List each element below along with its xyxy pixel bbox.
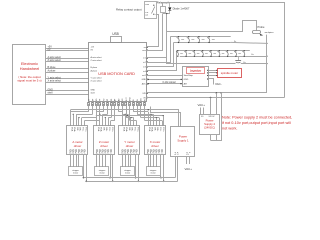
probe label xyxy=(258,25,265,29)
svg-text:motor: motor xyxy=(73,172,78,175)
wire handwheel Y axis select xyxy=(46,76,102,79)
card right pins xyxy=(142,46,149,99)
svg-text:GND: GND xyxy=(130,97,132,102)
wires Y driver power xyxy=(135,155,139,183)
wire relay contact to card xyxy=(147,15,159,47)
svg-text:EN: EN xyxy=(122,98,124,101)
svg-text:5V: 5V xyxy=(137,98,139,101)
PS2 ac stubs xyxy=(201,108,204,115)
wire relay coil to card xyxy=(147,14,163,51)
electronic handwheel box xyxy=(13,45,46,105)
wire handwheel shell xyxy=(46,91,95,94)
svg-text:B pluse: B pluse xyxy=(91,67,99,69)
svg-text:shell: shell xyxy=(91,92,96,94)
svg-text:motor: motor xyxy=(151,172,156,175)
svg-text:0V: 0V xyxy=(91,49,94,51)
limit switch row 2 xyxy=(176,50,245,57)
PS1 ac stubs xyxy=(187,157,190,164)
X stepper motor xyxy=(147,167,161,176)
svg-text:workpiece: workpiece xyxy=(265,32,275,34)
svg-text:Relay contact output: Relay contact output xyxy=(116,8,142,12)
svg-text:DIR+: DIR+ xyxy=(79,127,81,131)
svg-text:A pluse: A pluse xyxy=(48,69,57,72)
row1 top rail xyxy=(170,36,230,38)
svg-text:DIR+: DIR+ xyxy=(131,127,133,131)
V- bus xyxy=(86,157,177,182)
spindle motor box xyxy=(218,69,242,78)
svg-text:ENA+: ENA+ xyxy=(73,127,76,132)
vac- wire xyxy=(207,78,214,84)
svg-text:stepper: stepper xyxy=(99,169,106,172)
svg-text:VAC-: VAC- xyxy=(215,82,222,86)
svg-text:Handwheel: Handwheel xyxy=(20,66,40,71)
svg-text:ZP: ZP xyxy=(107,98,109,101)
svg-text:driver: driver xyxy=(74,144,82,148)
svg-text:in3: in3 xyxy=(143,67,146,69)
wire in4 to row2 top rail xyxy=(147,51,177,71)
wire in1 to probe line xyxy=(147,21,257,58)
svg-text:driver: driver xyxy=(100,144,108,148)
svg-text:VAC+: VAC+ xyxy=(198,103,206,107)
svg-text:GND: GND xyxy=(91,89,96,91)
svg-text:in2: in2 xyxy=(143,62,146,64)
note power supply 2 xyxy=(222,116,292,131)
VAC+ label PS2 xyxy=(198,103,206,107)
wire handwheel Z axis select xyxy=(46,59,102,62)
power supply 1 box xyxy=(171,127,195,157)
svg-text:Es: Es xyxy=(252,54,254,56)
svg-text:Xs: Xs xyxy=(234,41,236,43)
svg-text:24V: 24V xyxy=(141,97,143,101)
wire start/stop xyxy=(147,75,183,77)
svg-text:ENA+: ENA+ xyxy=(125,127,128,132)
svg-text:YD: YD xyxy=(103,98,105,101)
svg-text:driver: driver xyxy=(151,144,159,148)
probe vertical xyxy=(266,35,268,93)
svg-text:L N: L N xyxy=(186,154,189,156)
svg-text:Z axis select: Z axis select xyxy=(48,59,62,62)
power supply 1 label xyxy=(177,135,189,143)
wire handwheel A pluse xyxy=(46,69,98,72)
wire coil-diode bottom xyxy=(163,13,170,15)
handwheel label xyxy=(20,61,40,71)
handwheel note xyxy=(17,75,41,83)
USB connector xyxy=(111,32,122,43)
wire avi inverter xyxy=(147,83,183,84)
wire 24V bus xyxy=(147,92,267,94)
PS2 0V riser xyxy=(210,98,212,115)
svg-text:VAC+: VAC+ xyxy=(185,167,193,171)
svg-text:DIR+: DIR+ xyxy=(105,127,107,131)
svg-text:V-: V- xyxy=(161,152,163,154)
svg-text:stepper: stepper xyxy=(72,169,79,172)
svg-text:X axis select: X axis select xyxy=(48,79,62,82)
svg-text:0V: 0V xyxy=(48,48,51,51)
svg-text:USB: USB xyxy=(112,32,119,36)
V+ bus xyxy=(84,157,176,178)
svg-text:ENA-: ENA- xyxy=(148,127,151,132)
terminal to driver wiring xyxy=(71,106,163,126)
wire handwheel GND xyxy=(46,88,96,91)
USB motion card label xyxy=(98,71,135,76)
shared jog wire 2 xyxy=(96,115,164,126)
shared enable wire xyxy=(71,110,152,126)
relay contact output label xyxy=(116,8,142,12)
relay contact output box xyxy=(145,2,157,19)
PS2 bottom stubs xyxy=(211,134,217,140)
svg-text:YP: YP xyxy=(100,98,102,101)
wire handwheel X axis select xyxy=(46,79,102,82)
Y stepper motor xyxy=(121,167,135,176)
svg-text:PUL+: PUL+ xyxy=(162,127,164,132)
svg-text:com: com xyxy=(145,4,149,6)
top loop wire xyxy=(170,3,285,98)
svg-text:IN: IN xyxy=(133,99,135,101)
svg-text:PUL-: PUL- xyxy=(134,127,136,131)
wire handwheel A axis select xyxy=(46,56,102,59)
svg-text:stepper: stepper xyxy=(124,169,131,172)
svg-text:Supply 1: Supply 1 xyxy=(177,139,189,143)
svg-text:OUT: OUT xyxy=(126,97,128,102)
svg-text:Probe: Probe xyxy=(258,25,265,29)
Z stepper motor xyxy=(95,167,109,176)
svg-text:DIR+: DIR+ xyxy=(156,127,158,131)
X motor driver xyxy=(145,126,166,155)
svg-text:shell: shell xyxy=(48,91,53,94)
row1 bottom rail xyxy=(174,42,231,44)
svg-text:PUL+: PUL+ xyxy=(111,127,113,132)
svg-text:DIR-: DIR- xyxy=(76,127,78,131)
VAC+ label PS1 xyxy=(185,167,193,171)
svg-text:Inverter: Inverter xyxy=(190,69,202,73)
USB motion card box xyxy=(89,43,147,102)
row2 top rail xyxy=(177,50,250,52)
relay coil label xyxy=(157,0,169,4)
wires inverter-spindle xyxy=(207,70,218,76)
A stepper motor xyxy=(69,167,83,176)
svg-text:not work.: not work. xyxy=(222,127,237,131)
svg-text:ENA+: ENA+ xyxy=(151,127,154,132)
svg-text:GND: GND xyxy=(184,79,189,81)
svg-text:Y axis select: Y axis select xyxy=(91,76,103,79)
probe tip xyxy=(253,31,275,36)
svg-text:X axis select: X axis select xyxy=(91,79,103,82)
svg-text:AVI: AVI xyxy=(184,82,188,85)
e-stop button xyxy=(235,56,245,64)
svg-text:PUL-: PUL- xyxy=(159,127,161,131)
svg-text:N L: N L xyxy=(201,116,204,118)
wire gnd inverter xyxy=(147,79,183,80)
VAC- label xyxy=(215,82,222,86)
wires X driver to motor xyxy=(149,155,157,167)
power supply 2 label xyxy=(204,119,215,130)
svg-text:AD: AD xyxy=(117,98,120,101)
row2 continuation xyxy=(252,54,268,57)
inverter box xyxy=(183,67,209,87)
svg-text:PUL+: PUL+ xyxy=(136,127,138,132)
wire handwheel +5V xyxy=(46,45,95,48)
svg-text:ADC: ADC xyxy=(142,83,147,86)
svg-text:in4: in4 xyxy=(143,71,146,73)
svg-text:out1: out1 xyxy=(142,74,146,77)
PS2 24V riser xyxy=(216,93,218,114)
svg-text:DIR-: DIR- xyxy=(102,127,104,131)
svg-text:24V: 24V xyxy=(142,93,146,95)
svg-text:PUL-: PUL- xyxy=(82,127,84,131)
card bottom terminal strip xyxy=(88,97,147,106)
wire 0V top loop xyxy=(147,97,285,99)
relay coil xyxy=(161,7,166,13)
wire handwheel B pluse xyxy=(46,66,98,69)
svg-text:stepper: stepper xyxy=(150,169,157,172)
wires A driver to motor xyxy=(71,155,79,167)
svg-text:out: out xyxy=(145,14,148,17)
spindle motor label xyxy=(221,71,238,75)
0-10v signal label xyxy=(163,81,176,84)
wire in2 to row1 top rail xyxy=(147,37,171,63)
svg-text:ENA+: ENA+ xyxy=(100,127,103,132)
wires A driver power xyxy=(83,155,87,183)
wires X driver power xyxy=(160,155,164,183)
power supply 2 box xyxy=(200,115,220,135)
svg-text:ZD: ZD xyxy=(111,98,113,101)
svg-text:XP: XP xyxy=(92,98,94,101)
inverter pin labels xyxy=(184,74,194,85)
svg-text:driver: driver xyxy=(126,144,134,148)
wires Y driver to motor xyxy=(123,155,131,167)
svg-text:motor: motor xyxy=(100,172,105,175)
svg-text:V-: V- xyxy=(136,152,138,154)
svg-text:PUL+: PUL+ xyxy=(84,127,86,132)
svg-text:XD: XD xyxy=(96,98,98,101)
svg-text:motor: motor xyxy=(125,172,130,175)
svg-text:Z axis select: Z axis select xyxy=(91,59,103,62)
svg-text:DIR-: DIR- xyxy=(128,127,130,131)
svg-text:no: no xyxy=(144,47,146,49)
svg-text:Start/Stop: Start/Stop xyxy=(184,74,194,77)
row2 bottom rail xyxy=(180,56,258,58)
svg-text:spindle motor: spindle motor xyxy=(221,71,238,75)
Z motor driver xyxy=(94,126,115,155)
svg-text:in1: in1 xyxy=(143,58,146,60)
svg-text:GND: GND xyxy=(142,79,147,81)
svg-text:V-: V- xyxy=(84,152,86,154)
wire in3 to row1 bottom rail xyxy=(147,43,174,67)
limit switch row 1 xyxy=(177,36,215,43)
PS2 loop wire xyxy=(211,93,222,141)
svg-text:if not 0-10v port,output port,: if not 0-10v port,output port,input port… xyxy=(222,121,291,125)
svg-text:Note: Power supply 2 must be c: Note: Power supply 2 must be connected, xyxy=(222,116,292,120)
wire coil-diode top xyxy=(163,3,170,7)
e-stop wire xyxy=(241,63,268,64)
svg-text:+5V: +5V xyxy=(91,46,95,48)
svg-text:(24VDC): (24VDC) xyxy=(204,126,215,130)
Y motor driver xyxy=(119,126,140,155)
svg-text:A pluse: A pluse xyxy=(91,69,98,72)
PS1 top feed wires xyxy=(148,107,181,127)
wire handwheel 0V xyxy=(46,48,94,51)
wire common to e-stop xyxy=(166,13,235,64)
svg-text:com: com xyxy=(142,50,146,52)
diode 1n4007 xyxy=(168,3,190,14)
row1 continuation xyxy=(231,41,268,44)
svg-text:AP: AP xyxy=(114,98,117,101)
svg-text:V-: V- xyxy=(110,152,112,154)
A motor driver xyxy=(67,126,88,155)
svg-text:signal must be 5 v): signal must be 5 v) xyxy=(17,79,41,83)
wires Z driver to motor xyxy=(97,155,106,167)
wires Z driver power xyxy=(109,155,113,183)
inverter label xyxy=(187,68,205,74)
svg-text:A axis select: A axis select xyxy=(91,56,103,59)
svg-text:Diode 1n4007: Diode 1n4007 xyxy=(173,7,190,11)
svg-text:+V -V: +V -V xyxy=(174,154,179,156)
svg-text:USB MOTION CARD: USB MOTION CARD xyxy=(98,71,135,76)
svg-text:PUL-: PUL- xyxy=(108,127,110,131)
svg-text:DIR-: DIR- xyxy=(153,127,155,131)
